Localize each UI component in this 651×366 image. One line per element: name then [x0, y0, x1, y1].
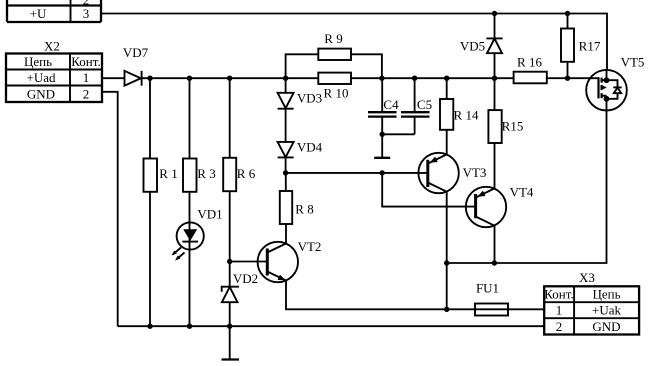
connector X2 (table) [6, 54, 102, 103]
wire VT2 emitter to fuse line [286, 281, 544, 310]
resistor R10 (in main rail) [318, 73, 351, 84]
wire main rail from R16 to VT5 gate [547, 77, 599, 79]
svg-text:R 8: R 8 [295, 202, 313, 217]
svg-text:R 16: R 16 [517, 55, 542, 70]
connector X1 (top table, cut off at top edge) [7, 0, 101, 22]
LED VD1 [172, 222, 204, 260]
svg-text:X2: X2 [44, 39, 60, 54]
svg-text:R 3: R 3 [197, 166, 215, 181]
wire output node down to fuse line [446, 263, 448, 309]
resistor R15 [488, 78, 501, 189]
wire C5 bottom to C4 line [382, 133, 414, 135]
svg-text:VD3: VD3 [297, 91, 322, 106]
junction on +U rail at R17 [565, 11, 570, 16]
resistor R16 (in main rail) [514, 72, 547, 84]
svg-text:VD7: VD7 [123, 45, 149, 60]
wire from base line down and right to VT4 base [382, 173, 475, 207]
wire output node line to VT5 source [447, 111, 607, 264]
fuse FU1 [475, 304, 508, 316]
connector X3 (table) [544, 286, 639, 334]
svg-text:C4: C4 [383, 97, 399, 112]
junction output node at VT3 [444, 260, 449, 265]
svg-text:2: 2 [83, 86, 90, 101]
svg-text:FU1: FU1 [476, 281, 499, 296]
junction fuse line at VT3/VT5 node drop [444, 307, 449, 312]
resistor R17 [561, 14, 574, 79]
junction on +U rail at VD5 [492, 11, 497, 16]
diode VD3 [278, 78, 294, 142]
svg-text:1: 1 [83, 70, 90, 85]
svg-text:VT3: VT3 [463, 165, 487, 180]
junction GND rail at R1 [147, 324, 152, 329]
svg-text:Цепь: Цепь [592, 287, 620, 302]
svg-text:VT4: VT4 [510, 185, 534, 200]
transistor VT3 (PNP) [418, 153, 458, 193]
junction main rail at C5 [412, 76, 417, 81]
svg-text:VD1: VD1 [197, 207, 222, 222]
resistor R3 [183, 78, 197, 326]
transistor VT4 (PNP) [466, 187, 506, 227]
junction main rail at R14 [444, 76, 449, 81]
svg-text:R 10: R 10 [324, 86, 349, 101]
svg-text:R17: R17 [579, 39, 601, 54]
junction main rail at VD3 / R9 [283, 76, 288, 81]
diode VD5 [486, 14, 502, 79]
svg-text:3: 3 [83, 6, 90, 21]
wire +U rail from X1 pin 3 to VT5 drain [101, 14, 607, 72]
diode VD4 [278, 142, 294, 173]
junction main rail at R1 [147, 76, 152, 81]
diode VD7 [125, 71, 142, 86]
svg-text:GND: GND [27, 86, 55, 101]
resistor R6 [223, 78, 236, 286]
svg-text:GND: GND [592, 319, 620, 334]
resistor R9 (upper bypass) [286, 49, 382, 79]
transistor VT2 (NPN) [258, 242, 298, 282]
svg-text:R 1: R 1 [159, 166, 177, 181]
svg-text:R15: R15 [502, 119, 524, 134]
junction C4/C5 bottom [380, 132, 385, 137]
svg-text:C5: C5 [417, 97, 432, 112]
svg-text:+U: +U [30, 6, 47, 21]
wire main rail from VD7 cathode to R16 [142, 77, 514, 79]
wire VT2 base from junction [230, 261, 268, 263]
resistor R1 [144, 78, 158, 326]
wire from X2 pin 1 to diode VD7 anode [102, 77, 125, 79]
resistor R14 [440, 78, 453, 154]
junction VD4 / R8 / base line [283, 170, 288, 175]
wire base line from VD4 junction to VT3 base [286, 172, 428, 174]
svg-text:2: 2 [556, 319, 563, 334]
zener diode VD2 [222, 287, 239, 327]
junction main rail at R6 [227, 76, 232, 81]
svg-text:+Uak: +Uak [592, 303, 621, 318]
ground (chassis) symbol below VD2 [222, 326, 240, 359]
junction main rail at R9 right / C4 [379, 76, 384, 81]
junction R6 / VD2 / VT2 base [227, 259, 232, 264]
wire VT3 collector down to output node [446, 192, 448, 263]
svg-text:VD2: VD2 [233, 271, 258, 286]
svg-text:R 9: R 9 [324, 31, 342, 46]
capacitor C4 [368, 78, 397, 158]
junction main rail at VD5 / R15 [492, 76, 497, 81]
junction base line to VT4 base drop [380, 170, 385, 175]
svg-text:Цепь: Цепь [24, 54, 52, 69]
resistor R8 [280, 173, 292, 244]
svg-text:X3: X3 [579, 270, 595, 285]
junction GND rail at VD2 [227, 324, 232, 329]
svg-text:VD4: VD4 [297, 140, 323, 155]
chassis bar below C4 [374, 157, 390, 159]
svg-text:R 6: R 6 [237, 166, 256, 181]
capacitor C5 [401, 78, 430, 134]
svg-text:R 14: R 14 [454, 108, 479, 123]
wire GND rail bottom [118, 325, 545, 327]
svg-text:VT2: VT2 [298, 239, 322, 254]
junction main rail at R3 [187, 76, 192, 81]
wire VT4 collector down to output node [494, 226, 496, 263]
svg-text:VT5: VT5 [621, 55, 645, 70]
junction main rail at R17 [565, 76, 570, 81]
wire X2 pin 2 to GND rail [102, 92, 118, 326]
junction output node at VT4 [492, 260, 497, 265]
MOSFET VT5 [586, 70, 627, 111]
svg-text:VD5: VD5 [460, 39, 485, 54]
svg-text:1: 1 [556, 303, 563, 318]
svg-text:Конт.: Конт. [71, 54, 100, 69]
junction GND rail at VD1 [187, 324, 192, 329]
svg-text:Конт.: Конт. [544, 287, 573, 302]
svg-text:+Uad: +Uad [27, 70, 56, 85]
